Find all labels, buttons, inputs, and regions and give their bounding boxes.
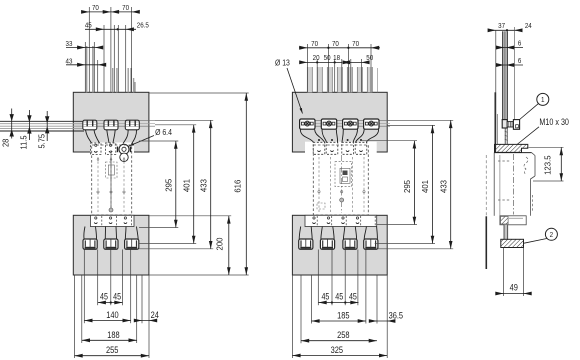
right view: top adapter rear plane line	[494, 92, 496, 152]
svg-text:49: 49	[510, 282, 519, 293]
dimension 200 (left view)	[228, 216, 230, 275]
svg-text:50: 50	[366, 55, 373, 63]
svg-text:24: 24	[525, 23, 532, 31]
left view: horizontal busbars entering from left	[0, 120, 84, 122]
right view: top mounting bracket (hatched)	[495, 144, 528, 152]
right view: busbar clamp with bolt (item 1)	[496, 114, 498, 144]
svg-text:140: 140	[106, 309, 119, 320]
dimension 123.5 (right view)	[529, 146, 564, 148]
dimension 6 (lower)	[497, 64, 523, 66]
pole lug connection curves (middle view top)	[300, 129, 313, 142]
dimension 401 (left view)	[193, 125, 195, 244]
threaded rod below clamp	[504, 128, 506, 144]
bolt with washer, Oe6.4 fixing hole (left view)	[119, 144, 129, 154]
svg-text:45: 45	[335, 292, 343, 302]
left view: bottom cable clamps (3 poles)	[83, 239, 97, 249]
svg-text:2: 2	[550, 232, 554, 240]
right view: device body top edge	[494, 152, 532, 154]
dimension 295 (left view)	[175, 141, 177, 228]
dimension 45 | 45 (bottom left view)	[98, 302, 123, 304]
svg-text:255: 255	[106, 344, 119, 355]
dimension 45 and 26.5 (left view)	[85, 28, 136, 30]
svg-text:43: 43	[66, 58, 73, 66]
reference lines to right-hand dimensions (middle view)	[388, 119, 454, 121]
dimension 45 | 45 | 45 (middle view)	[319, 302, 359, 304]
dimension 325 (middle view)	[292, 355, 387, 357]
item 2 balloon	[545, 228, 557, 240]
pole lug connection curves (top)	[86, 130, 92, 143]
extension lines above middle view	[306, 44, 308, 92]
leader from balloon 1 to clamp	[519, 104, 538, 120]
svg-text:20: 20	[313, 55, 320, 63]
svg-text:36.5: 36.5	[389, 310, 404, 321]
dimension 433 (middle view)	[450, 120, 452, 249]
middle view: contactor body outline (dashed)	[313, 145, 368, 215]
svg-text:33: 33	[66, 41, 73, 49]
svg-text:26.5: 26.5	[137, 22, 149, 30]
dimension 43 (left view)	[66, 64, 105, 66]
svg-text:5.75: 5.75	[37, 134, 46, 149]
fan-out busbar curves (bottom)	[84, 227, 85, 240]
svg-text:Ø 13: Ø 13	[275, 58, 290, 68]
svg-text:200: 200	[215, 237, 224, 251]
left view: body bottom lugs (white strip)	[90, 215, 134, 226]
svg-text:185: 185	[337, 310, 350, 321]
middle view: top terminal clamps (4 poles)	[300, 119, 315, 129]
dimension 258 (middle view)	[301, 340, 377, 342]
dimension 255	[75, 355, 150, 357]
item 1 balloon	[537, 93, 549, 105]
left view: contactor body top lugs (white strip)	[90, 143, 134, 156]
svg-text:45: 45	[321, 292, 329, 302]
dimension 49 (right view bottom)	[503, 248, 505, 296]
svg-text:24: 24	[151, 309, 160, 320]
svg-text:45: 45	[100, 292, 108, 302]
svg-text:258: 258	[337, 329, 350, 340]
body internal dashed details	[97, 157, 99, 212]
middle view: bottom cable clamps (4 poles)	[299, 239, 313, 249]
left view: top terminal clamps (3 poles)	[83, 120, 97, 130]
right view: bottom adapter rear plane line	[485, 155, 487, 216]
dimension 401 (middle view)	[432, 125, 434, 243]
left view: vertical busbars above plate	[86, 46, 88, 92]
svg-text:123.5: 123.5	[543, 155, 552, 175]
svg-text:45: 45	[349, 292, 357, 302]
right view: bottom fixing foot (hatched, item 2)	[501, 239, 524, 247]
svg-text:Ø 6.4: Ø 6.4	[155, 128, 172, 138]
svg-text:18: 18	[333, 55, 340, 63]
dimension 11.5 (left)	[28, 110, 30, 140]
extension lines below middle bottom plate	[291, 275, 293, 358]
svg-text:433: 433	[439, 179, 448, 193]
svg-text:325: 325	[331, 344, 344, 355]
dimension 295 (middle view)	[413, 141, 415, 225]
middle view: bottom mounting plate	[292, 215, 387, 275]
middle view: body bottom lugs (white strip)	[305, 215, 377, 226]
svg-text:1: 1	[541, 97, 545, 105]
svg-text:70: 70	[122, 4, 129, 12]
extension lines below bottom plate	[74, 275, 76, 358]
dimension 70 | 70 (left view top)	[82, 11, 139, 13]
svg-text:70: 70	[311, 41, 318, 49]
svg-text:50: 50	[324, 55, 331, 63]
dimension 185 and 36.5 (middle view)	[311, 320, 366, 322]
dimension 433 (left view)	[210, 120, 212, 249]
svg-text:433: 433	[199, 179, 208, 193]
svg-text:45: 45	[85, 22, 92, 30]
right view: vertical busbar (edge-on)	[503, 31, 508, 121]
svg-text:616: 616	[233, 179, 242, 193]
left view: rear busbar lines across plate	[84, 119, 155, 121]
leader line for Oe6.4	[129, 136, 155, 147]
leader from balloon 2 to foot	[524, 239, 547, 244]
middle body internal details	[335, 162, 352, 187]
dimension 70 | 70 | 70 (middle view)	[299, 47, 380, 49]
dimension 188	[82, 339, 137, 341]
svg-text:6: 6	[518, 57, 522, 65]
svg-text:28: 28	[1, 139, 10, 147]
dimension 616 (left view)	[245, 93, 247, 275]
svg-text:6: 6	[518, 40, 522, 48]
right view: bottom terminal piece	[500, 216, 526, 225]
svg-text:70: 70	[352, 41, 359, 49]
svg-text:295: 295	[403, 179, 412, 193]
svg-text:11.5: 11.5	[19, 135, 28, 149]
svg-text:70: 70	[332, 41, 339, 49]
svg-text:37: 37	[498, 23, 505, 31]
dimension 28 (left)	[11, 109, 13, 139]
dimension 37 and 24 (right view top)	[488, 29, 523, 31]
extension lines (right view top)	[495, 30, 497, 142]
dimension 140 and 24	[84, 320, 130, 322]
middle view: rear busbar lines across plate	[301, 119, 391, 121]
reference lines to right-hand dimensions (left view)	[149, 92, 249, 94]
left view: top mounting plate	[73, 92, 149, 152]
middle view: vertical busbars above plate	[307, 67, 312, 92]
dimension 6 (upper)	[497, 47, 523, 49]
middle view: top mounting plate	[292, 92, 387, 152]
left view: bottom mounting plate	[73, 215, 149, 275]
middle view: body top lugs (white strip)	[305, 142, 377, 155]
right view: device body side outline	[493, 153, 495, 216]
svg-text:188: 188	[107, 329, 120, 340]
svg-text:401: 401	[421, 179, 430, 193]
svg-text:M10 x 30: M10 x 30	[539, 117, 569, 127]
dimension chain 20 50 18 and 50 (middle view)	[301, 61, 342, 63]
svg-text:295: 295	[164, 178, 173, 192]
fan-out busbar curves (middle view bottom)	[299, 227, 301, 240]
svg-text:70: 70	[92, 4, 99, 12]
svg-text:401: 401	[182, 179, 191, 193]
extension lines for 70|70	[88, 7, 90, 92]
dimension 5.75 (left)	[46, 111, 48, 141]
left view: contactor body outline (dashed)	[92, 145, 132, 215]
svg-text:45: 45	[113, 292, 121, 302]
dimension 33 (left view)	[66, 47, 102, 49]
